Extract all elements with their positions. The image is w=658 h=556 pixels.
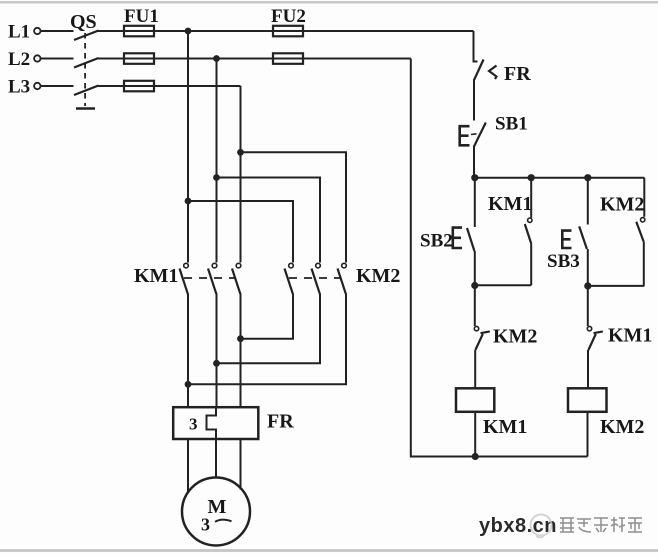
wire L1 drop xyxy=(187,31,189,263)
wire L1 control drop xyxy=(474,31,478,62)
junction branch L3 xyxy=(237,149,244,156)
junction KM2 c2 / L2 xyxy=(213,360,220,367)
wire KM2 c3 out to L1 column xyxy=(188,294,346,385)
wire branch L3 to KM2 contact 3 xyxy=(241,152,347,262)
svg-text:KM2: KM2 xyxy=(493,326,537,348)
svg-text:KM2: KM2 xyxy=(600,416,644,438)
fuse FU1 (three elements) xyxy=(124,6,159,91)
wire L2 run xyxy=(97,58,411,60)
svg-text:KM1: KM1 xyxy=(134,265,178,287)
wire branch L1 to KM2 contact 1 xyxy=(188,201,293,263)
svg-text:L2: L2 xyxy=(8,49,30,70)
junction branch L2 xyxy=(213,174,220,181)
svg-text:L1: L1 xyxy=(8,22,30,43)
svg-text:3: 3 xyxy=(189,415,198,434)
wire L3 to QS xyxy=(41,85,74,87)
wire L1 to QS xyxy=(41,30,74,32)
terminal L2 xyxy=(8,49,41,70)
wire L1 run xyxy=(97,30,474,32)
svg-text:M: M xyxy=(208,496,227,518)
svg-text:SB2: SB2 xyxy=(420,231,453,252)
svg-text:L3: L3 xyxy=(8,77,30,98)
wire L2 to QS xyxy=(41,58,74,60)
wire KM2 c1 out to L3 column xyxy=(241,294,294,339)
junction node A xyxy=(471,174,478,181)
wire SB1 to node row xyxy=(473,146,475,178)
wire L3 drop xyxy=(240,86,242,263)
svg-text:QS: QS xyxy=(70,11,97,33)
thermal relay FR NC contact xyxy=(474,60,531,86)
interlock contact KM2 NC xyxy=(474,286,537,389)
svg-text:KM1: KM1 xyxy=(483,416,527,438)
junction bottom xyxy=(472,453,479,460)
svg-text:KM2: KM2 xyxy=(356,265,400,287)
wire control bus xyxy=(474,177,644,179)
wire KM1 c1 out xyxy=(187,294,189,408)
wire KM2 c2 out to L2 column xyxy=(217,294,321,364)
junction KM2 c3 / L1 xyxy=(185,381,192,388)
wires FR box to motor xyxy=(187,439,189,493)
fuse FU2 (two elements) xyxy=(271,6,306,64)
coil KM1 xyxy=(456,388,527,438)
contactor KM2 main contacts xyxy=(285,263,401,293)
auxiliary contact KM2 holding xyxy=(588,178,645,286)
svg-text:3: 3 xyxy=(201,515,210,535)
wire L3 run xyxy=(97,85,241,87)
pushbutton SB3 start-reverse NO xyxy=(547,178,588,286)
junction KM2 c1 / L3 xyxy=(237,335,244,342)
svg-text:SB1: SB1 xyxy=(495,114,528,135)
svg-text:FU2: FU2 xyxy=(271,6,306,27)
wire KM1 c2 out xyxy=(216,294,218,408)
auxiliary contact KM1 holding xyxy=(475,178,533,286)
wire FR to SB1 xyxy=(473,79,475,121)
watermark chinese text xyxy=(560,517,642,532)
interlock contact KM1 NC xyxy=(587,286,652,388)
terminal L3 xyxy=(8,77,41,98)
junction branch L1 xyxy=(185,198,192,205)
junction L2 drop xyxy=(213,55,220,62)
svg-text:KM1: KM1 xyxy=(608,325,652,347)
pushbutton SB2 start-forward NO xyxy=(420,178,475,286)
wire KM1 c3 out xyxy=(240,294,242,408)
svg-text:FU1: FU1 xyxy=(124,6,159,27)
svg-text:KM1: KM1 xyxy=(488,193,532,215)
svg-text:FR: FR xyxy=(267,411,294,433)
wire coil KM2 to bottom xyxy=(587,412,589,457)
motor M xyxy=(182,478,250,546)
junction node C xyxy=(584,174,591,181)
watermark stamp circle xyxy=(531,515,552,536)
svg-text:KM2: KM2 xyxy=(600,194,644,216)
coil KM2 xyxy=(568,388,644,438)
junction node E xyxy=(584,282,591,289)
thermal relay FR heater box xyxy=(173,407,294,439)
wire branch L2 to KM2 contact 2 xyxy=(217,178,321,263)
switch QS xyxy=(70,11,99,109)
wire L2 drop xyxy=(216,59,218,263)
contactor KM1 main contacts xyxy=(134,263,241,293)
terminal L1 xyxy=(8,22,41,43)
wire control return from L2 xyxy=(411,59,588,457)
junction node B xyxy=(528,174,535,181)
svg-text:FR: FR xyxy=(504,63,531,85)
wire coil KM1 to bottom xyxy=(474,412,476,457)
junction node D xyxy=(471,282,478,289)
junction L1 drop xyxy=(185,28,192,35)
pushbutton SB1 stop NC xyxy=(460,114,528,147)
svg-text:SB3: SB3 xyxy=(547,251,580,272)
